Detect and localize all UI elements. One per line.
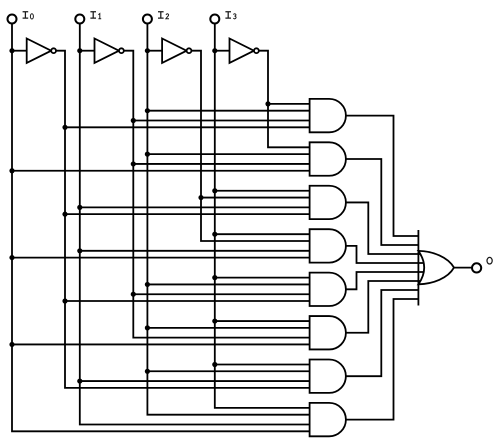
- junction I3 at inverter U4 tap: [212, 48, 217, 53]
- wire AND gate A3 output to OR gate input 3: [346, 202, 421, 254]
- AND gate A1: [310, 99, 346, 132]
- wire net I3 to AND gate A6 pin 1: [215, 320, 312, 322]
- wire net I3 vertical bus: [215, 24, 312, 408]
- wire net NOT-I0 vertical bus: [56, 51, 312, 388]
- junction I1 at inverter U2 tap: [77, 48, 82, 53]
- junction I3 to AND gate A6 pin 1: [212, 318, 217, 323]
- AND gate A3: [310, 186, 346, 219]
- label I3: [225, 12, 236, 19]
- AND gate A5: [310, 273, 346, 306]
- wire net I2 to AND gate A7 pin 2: [147, 370, 311, 372]
- junction N0 to AND gate A1 pin 4: [62, 125, 67, 130]
- junction I2 to AND gate A1 pin 2: [145, 108, 150, 113]
- wire AND gate A8 output to OR gate input 8: [346, 299, 419, 420]
- label O: [487, 257, 492, 264]
- wire net N1 to AND gate A1 pin 3: [133, 120, 311, 122]
- wire net I3 to AND gate A4 pin 1: [215, 233, 312, 235]
- wire AND gate A2 output to OR gate input 2: [346, 159, 419, 245]
- wire net I0 to AND gate A6 pin 4: [12, 343, 312, 345]
- junction N0 to AND gate A3 pin 4: [62, 212, 67, 217]
- junction I1 to AND gate A7 pin 3: [77, 378, 82, 383]
- inverter U4 output bubble: [254, 48, 259, 53]
- junction I2 to AND gate A5 pin 2: [145, 282, 150, 287]
- junction N1 to AND gate A1 pin 3: [131, 118, 136, 123]
- inverter U4 triangle: [230, 39, 255, 63]
- label I0: [23, 12, 34, 19]
- wire net I0 vertical bus: [12, 24, 312, 432]
- wire net I2 to AND gate A1 pin 2: [147, 110, 311, 112]
- junction I1 to AND gate A4 pin 3: [77, 248, 82, 253]
- wire net I2 to AND gate A5 pin 2: [147, 283, 311, 285]
- junction I3 to AND gate A7 pin 1: [212, 362, 217, 367]
- wire net I0 to AND gate A4 pin 4: [12, 257, 312, 259]
- junction I2 to AND gate A6 pin 2: [145, 325, 150, 330]
- wire AND gate A7 output to OR gate input 7: [346, 290, 419, 376]
- wire net N1 to AND gate A5 pin 3: [133, 293, 311, 295]
- wire OR gate input extension bus: [417, 230, 419, 306]
- junction I0 to AND gate A4 pin 4: [9, 255, 14, 260]
- junction I3 to AND gate A5 pin 1: [212, 275, 217, 280]
- wire net I2 to inverter U3 input: [147, 50, 162, 52]
- wire net N3 to AND gate A1 pin 1: [268, 103, 312, 105]
- junction N1 to AND gate A2 pin 3: [131, 161, 136, 166]
- AND gate A4: [310, 229, 346, 262]
- junction I2 to AND gate A2 pin 2: [145, 152, 150, 157]
- junction N2 to AND gate A3 pin 2: [198, 195, 203, 200]
- wire net NOT-I1 vertical bus: [124, 51, 312, 338]
- AND gate A8: [310, 403, 346, 436]
- input terminal I0: [8, 15, 17, 24]
- wire net N1 to AND gate A2 pin 3: [133, 163, 311, 165]
- AND gate A7: [310, 359, 346, 392]
- OR gate U5: [418, 251, 454, 284]
- inverter U1 output bubble: [51, 48, 56, 53]
- junction I0 to AND gate A2 pin 4: [9, 168, 14, 173]
- label I2: [158, 12, 169, 19]
- wire AND gate A5 output to OR gate input 5: [346, 272, 424, 289]
- input terminal I2: [143, 15, 152, 24]
- wire net I2 to AND gate A6 pin 2: [147, 327, 311, 329]
- junction I1 to AND gate A3 pin 3: [77, 205, 82, 210]
- input terminal I1: [75, 15, 84, 24]
- inverter U1 triangle: [27, 39, 52, 63]
- wire net N0 to AND gate A5 pin 4: [65, 300, 312, 302]
- wire net N0 to AND gate A3 pin 4: [65, 213, 312, 215]
- wire net N0 to AND gate A1 pin 4: [65, 126, 312, 128]
- junction N3 to AND gate A1 pin 1: [265, 101, 270, 106]
- label I1: [90, 12, 101, 19]
- wire net I3 to AND gate A5 pin 1: [215, 277, 312, 279]
- junction I2 to AND gate A7 pin 2: [145, 369, 150, 374]
- wire net I1 to AND gate A3 pin 3: [80, 206, 312, 208]
- inverter U2 output bubble: [119, 48, 124, 53]
- output terminal O: [472, 263, 481, 272]
- junction I3 to AND gate A3 pin 1: [212, 188, 217, 193]
- wire net I3 to AND gate A7 pin 1: [215, 363, 312, 365]
- junction N0 to AND gate A5 pin 4: [62, 298, 67, 303]
- wire net I0 to inverter U1 input: [12, 50, 27, 52]
- wire net N2 to AND gate A3 pin 2: [201, 197, 312, 199]
- input terminal I3: [210, 15, 219, 24]
- AND gate A2: [310, 142, 346, 175]
- wire net I1 vertical bus: [80, 24, 312, 425]
- inverter U3 output bubble: [187, 48, 192, 53]
- wire OR gate output to terminal O: [454, 267, 472, 269]
- wire net NOT-I2 vertical bus: [191, 51, 311, 241]
- wire net NOT-I3 vertical bus: [259, 51, 312, 148]
- AND gate A6: [310, 316, 346, 349]
- wire AND gate A4 output to OR gate input 4: [346, 246, 424, 263]
- junction I0 at inverter U1 tap: [9, 48, 14, 53]
- wire net I2 to AND gate A2 pin 2: [147, 153, 311, 155]
- inverter U2 triangle: [95, 39, 120, 63]
- wire net I0 to AND gate A2 pin 4: [12, 170, 312, 172]
- wire AND gate A6 output to OR gate input 6: [346, 281, 421, 333]
- junction I3 to AND gate A4 pin 1: [212, 232, 217, 237]
- wire AND gate A1 output to OR gate input 1: [346, 116, 419, 236]
- wire net I3 to inverter U4 input: [215, 50, 230, 52]
- junction I0 to AND gate A6 pin 4: [9, 342, 14, 347]
- junction N1 to AND gate A5 pin 3: [131, 292, 136, 297]
- wire net I3 to AND gate A3 pin 1: [215, 190, 312, 192]
- wire net I1 to AND gate A4 pin 3: [80, 250, 312, 252]
- wire net I1 to AND gate A7 pin 3: [80, 380, 312, 382]
- wire net I1 to inverter U2 input: [80, 50, 95, 52]
- junction I2 at inverter U3 tap: [145, 48, 150, 53]
- inverter U3 triangle: [162, 39, 187, 63]
- wire net I2 vertical bus: [147, 24, 311, 415]
